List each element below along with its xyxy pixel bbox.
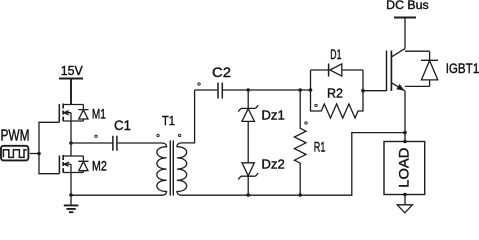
svg-text:R2: R2: [327, 86, 343, 101]
svg-text:M2: M2: [92, 158, 107, 174]
svg-text:C2: C2: [212, 64, 231, 80]
svg-text:LOAD: LOAD: [395, 148, 411, 188]
svg-text:DC Bus: DC Bus: [386, 0, 429, 12]
svg-text:C1: C1: [114, 118, 131, 133]
svg-text:IGBT1: IGBT1: [446, 61, 479, 76]
svg-text:15V: 15V: [61, 63, 83, 78]
svg-text:M1: M1: [92, 106, 106, 122]
svg-text:T1: T1: [162, 113, 175, 128]
svg-text:Dz2: Dz2: [261, 156, 284, 171]
svg-text:R1: R1: [314, 139, 326, 155]
svg-text:D1: D1: [330, 46, 341, 62]
svg-text:Dz1: Dz1: [261, 108, 284, 123]
svg-text:PWM: PWM: [1, 128, 30, 145]
